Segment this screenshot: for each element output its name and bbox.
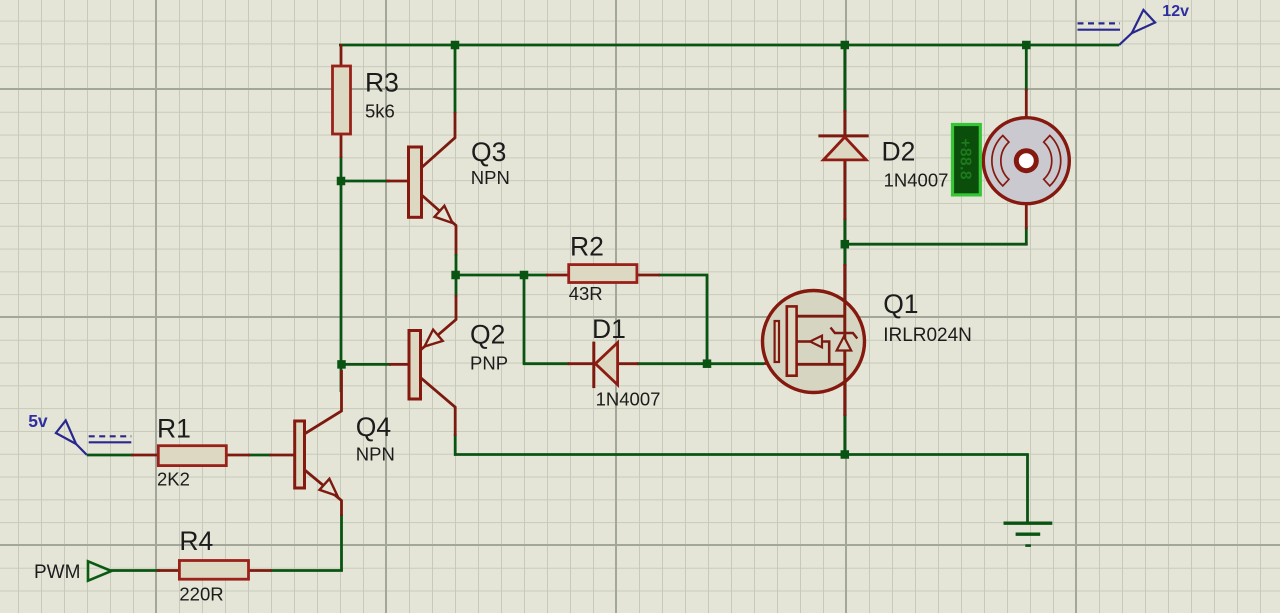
svg-text:D2: D2 bbox=[882, 137, 916, 167]
svg-text:Q2: Q2 bbox=[470, 320, 505, 350]
svg-text:D1: D1 bbox=[592, 314, 626, 344]
svg-text:12v: 12v bbox=[1162, 3, 1189, 20]
svg-text:R4: R4 bbox=[179, 526, 213, 556]
svg-text:NPN: NPN bbox=[356, 443, 395, 464]
svg-text:+88.8: +88.8 bbox=[957, 138, 974, 180]
svg-text:Q3: Q3 bbox=[471, 137, 506, 167]
svg-text:1N4007: 1N4007 bbox=[596, 388, 661, 409]
svg-text:43R: 43R bbox=[569, 283, 603, 304]
svg-text:Q4: Q4 bbox=[356, 412, 391, 442]
svg-text:Q1: Q1 bbox=[883, 289, 918, 319]
svg-text:PWM: PWM bbox=[34, 562, 80, 583]
svg-text:1N4007: 1N4007 bbox=[884, 169, 949, 190]
svg-text:IRLR024N: IRLR024N bbox=[883, 325, 972, 346]
svg-text:5k6: 5k6 bbox=[365, 101, 395, 122]
svg-text:R3: R3 bbox=[365, 68, 399, 98]
svg-text:2K2: 2K2 bbox=[157, 469, 190, 490]
svg-text:PNP: PNP bbox=[470, 352, 508, 373]
svg-text:220R: 220R bbox=[179, 583, 223, 604]
svg-text:NPN: NPN bbox=[471, 167, 510, 188]
svg-text:R1: R1 bbox=[157, 414, 191, 444]
svg-text:5v: 5v bbox=[28, 411, 48, 431]
svg-text:R2: R2 bbox=[570, 232, 604, 262]
